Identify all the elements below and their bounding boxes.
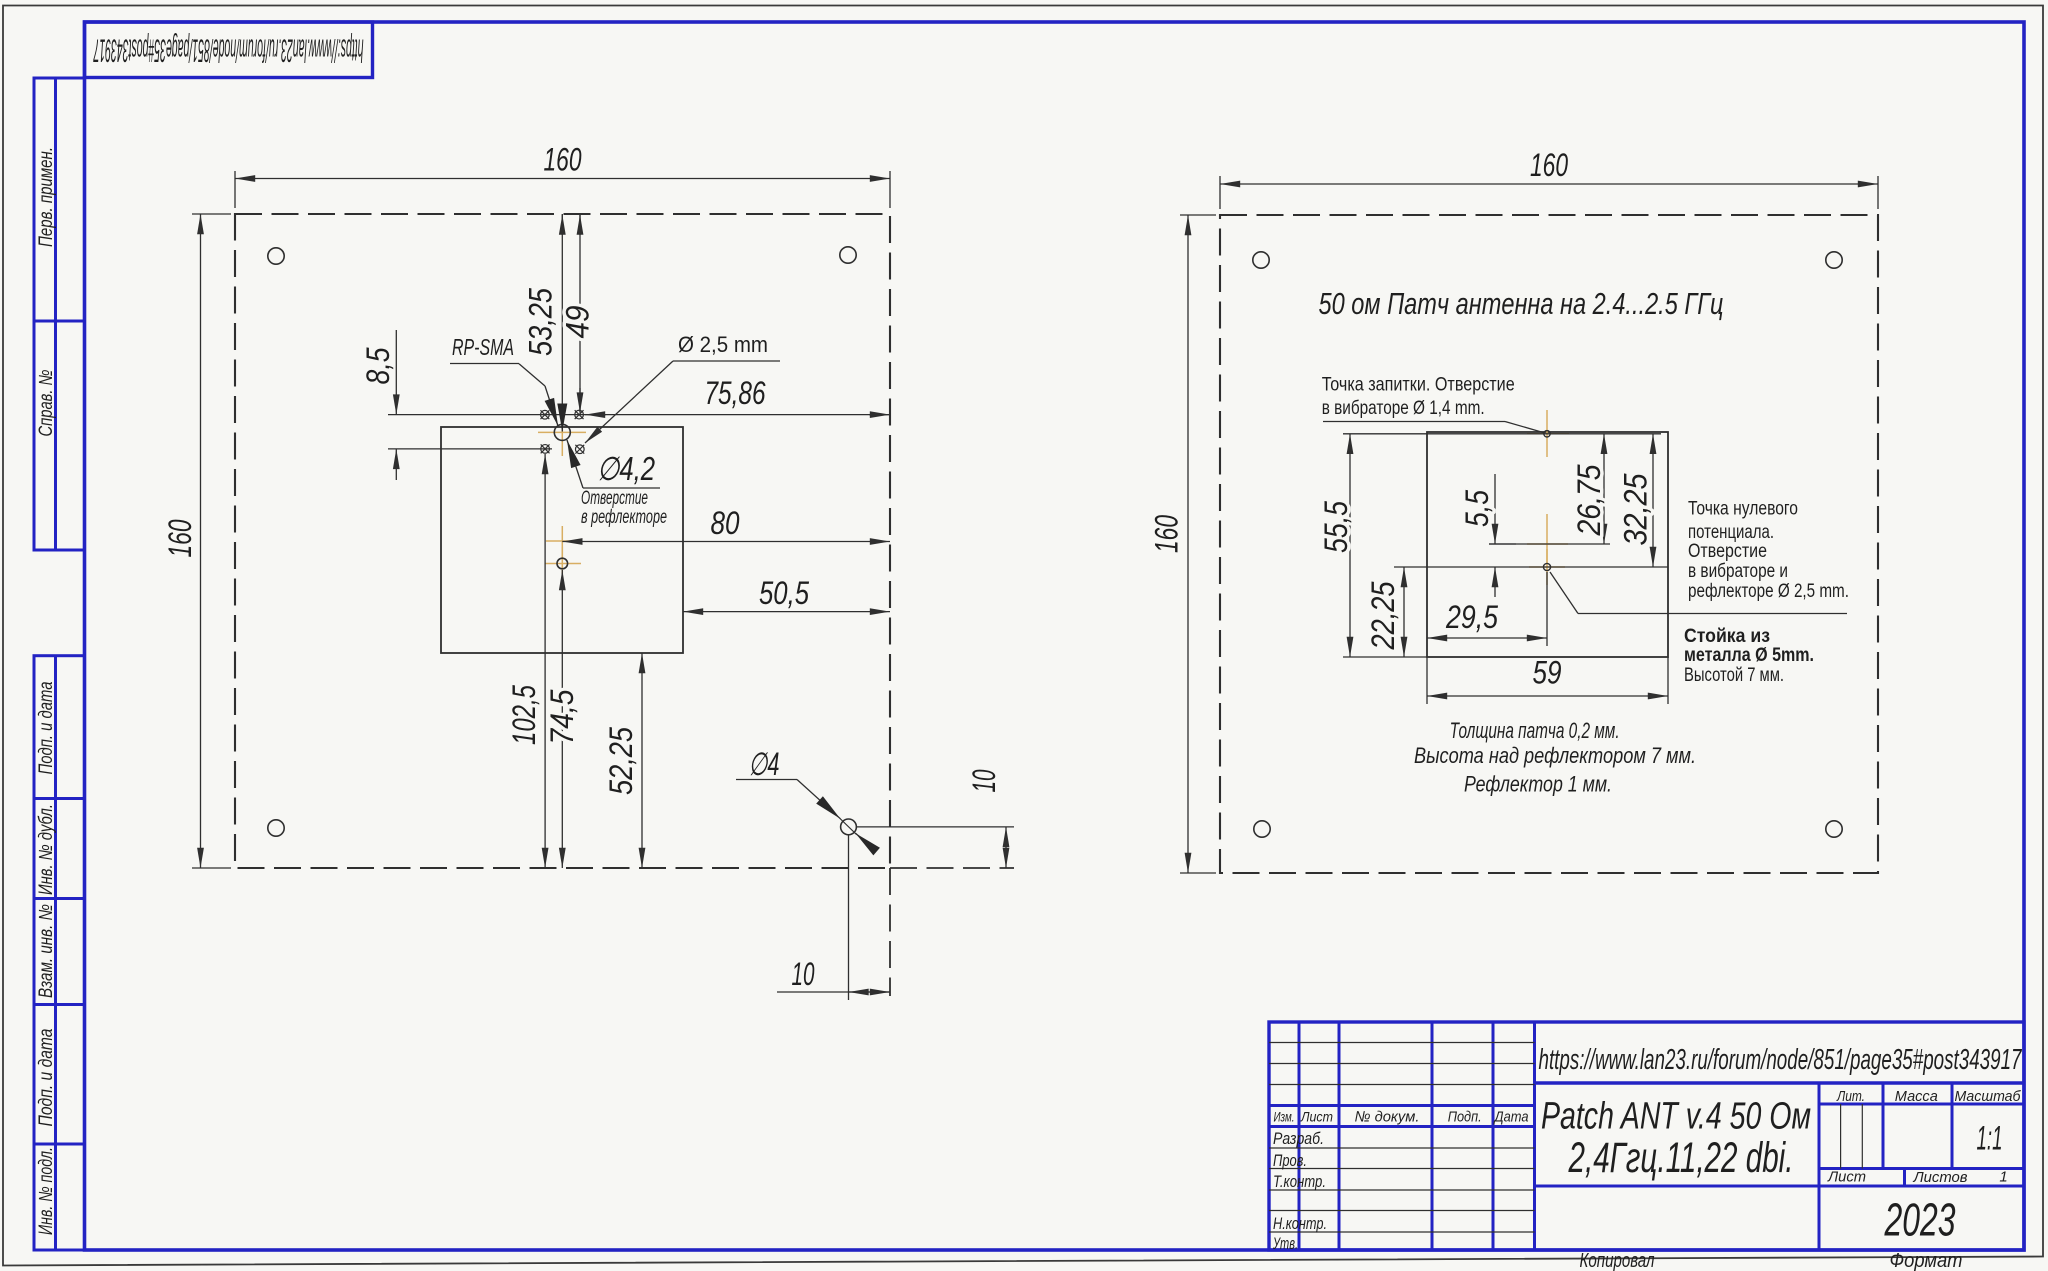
- dim 80: [562, 541, 890, 543]
- patch bottom extension left (right view): [1343, 656, 1427, 658]
- svg-text:Т.контр.: Т.контр.: [1273, 1172, 1326, 1191]
- svg-text:55,5: 55,5: [1318, 501, 1354, 553]
- svg-text:Дата: Дата: [1493, 1109, 1529, 1126]
- svg-text:Отверстие: Отверстие: [581, 488, 648, 509]
- right columns: [1818, 1083, 1821, 1250]
- dim 160 left: line: [200, 214, 202, 868]
- mounting hole bottom-right Ø4: [841, 819, 857, 835]
- svg-text:Масса: Масса: [1895, 1088, 1938, 1105]
- svg-text:Разраб.: Разраб.: [1273, 1129, 1324, 1148]
- left margin boxes lower: [34, 656, 85, 1250]
- dim 102,5: [544, 454, 546, 868]
- svg-text:75,86: 75,86: [705, 375, 766, 411]
- construction line patch centre (right): [1489, 543, 1610, 545]
- svg-text:52,25: 52,25: [603, 727, 639, 795]
- svg-text:2,4Ггц.11,22 dbi.: 2,4Ггц.11,22 dbi.: [1568, 1134, 1794, 1182]
- svg-text:Перв. примен.: Перв. примен.: [36, 147, 57, 247]
- svg-text:50,5: 50,5: [759, 575, 809, 611]
- plate outline dashed 160x160 (right): [1220, 215, 1878, 873]
- svg-text:металла Ø 5mm.: металла Ø 5mm.: [1684, 645, 1814, 666]
- zero potential hole 2.5mm (right): [1543, 563, 1550, 570]
- svg-text:5,5: 5,5: [1459, 490, 1495, 527]
- svg-text:Толщина патча 0,2 мм.: Толщина патча 0,2 мм.: [1450, 718, 1620, 743]
- svg-text:потенциала.: потенциала.: [1688, 522, 1774, 543]
- svg-text:Формат: Формат: [1890, 1250, 1963, 1271]
- header row lines blue: [1269, 1104, 1535, 1107]
- svg-text:Лит.: Лит.: [1836, 1088, 1865, 1105]
- svg-text:RP-SMA: RP-SMA: [452, 334, 514, 360]
- svg-text:102,5: 102,5: [506, 685, 542, 745]
- svg-text:Изм.: Изм.: [1274, 1109, 1295, 1125]
- svg-text:Копировал: Копировал: [1580, 1250, 1655, 1271]
- svg-text:160: 160: [1530, 147, 1568, 183]
- svg-text:Подп. и дата: Подп. и дата: [36, 682, 57, 775]
- dim 74,5: [561, 570, 563, 868]
- svg-text:Стойка из: Стойка из: [1684, 626, 1770, 647]
- URL box top-left: [85, 22, 373, 78]
- svg-text:Лист: Лист: [1300, 1109, 1333, 1125]
- svg-text:1: 1: [1999, 1169, 2007, 1186]
- left margin boxes upper: [34, 78, 85, 550]
- dim 160 top (right): [1219, 176, 1221, 209]
- svg-text:8,5: 8,5: [360, 347, 396, 384]
- centrelines (right): feed: [1527, 410, 1569, 457]
- svg-text:74,5: 74,5: [544, 689, 580, 744]
- svg-text:∅4: ∅4: [749, 746, 780, 782]
- svg-text:2023: 2023: [1884, 1194, 1956, 1246]
- centrelines (right): patch centre: [1527, 514, 1568, 564]
- dim 8,5 line+arrows: [395, 330, 397, 415]
- svg-text:https://www.lan23.ru/forum/nod: https://www.lan23.ru/forum/node/851/page…: [93, 33, 363, 69]
- svg-text:в рефлекторе: в рефлекторе: [581, 507, 667, 528]
- svg-text:Patch ANT v.4 50 Ом: Patch ANT v.4 50 Ом: [1541, 1096, 1811, 1138]
- RP-SMA feed circle: [554, 424, 570, 440]
- svg-text:32,25: 32,25: [1618, 473, 1654, 545]
- mounting hole top-left: [268, 248, 284, 264]
- dim 53,25 line: [561, 214, 563, 429]
- svg-text:Ø 2,5 mm: Ø 2,5 mm: [678, 332, 768, 357]
- mounting hole bottom-left: [268, 820, 284, 836]
- dim 5,5: [1489, 543, 1516, 545]
- svg-text:Лист: Лист: [1827, 1169, 1866, 1186]
- dim 22,25: [1403, 567, 1405, 657]
- line through upper feed holes / dim 75,86: [388, 414, 890, 416]
- svg-text:Утв.: Утв.: [1272, 1234, 1298, 1253]
- mounting holes (right view): [1253, 252, 1269, 268]
- svg-text:в вибраторе и: в вибраторе и: [1688, 561, 1788, 582]
- svg-text:160: 160: [544, 142, 582, 178]
- dim 32,25: [1652, 434, 1654, 567]
- svg-text:26,75: 26,75: [1571, 464, 1607, 536]
- svg-text:Высота над рефлектором 7 мм.: Высота над рефлектором 7 мм.: [1414, 743, 1696, 768]
- svg-text:1:1: 1:1: [1977, 1120, 2003, 1158]
- dim 160 left: extension lines: [192, 213, 231, 215]
- svg-text:160: 160: [162, 519, 198, 557]
- svg-text:Рефлектор 1 мм.: Рефлектор 1 мм.: [1464, 772, 1612, 797]
- dim 160 top: extension lines: [234, 171, 236, 208]
- dashed extension right edge below plate: [889, 868, 891, 996]
- svg-text:160: 160: [1149, 515, 1185, 553]
- construction line through zero point (right): [1394, 566, 1668, 568]
- dim 10 bottom: extension: [848, 835, 850, 1000]
- vibrator patch square (right): [1427, 432, 1668, 657]
- svg-text:№ докум.: № докум.: [1355, 1109, 1420, 1126]
- svg-text:22,25: 22,25: [1365, 581, 1401, 650]
- svg-text:рефлекторе Ø 2,5 mm.: рефлекторе Ø 2,5 mm.: [1688, 581, 1849, 602]
- svg-text:Н.контр.: Н.контр.: [1273, 1214, 1327, 1233]
- dim 26,75: [1603, 434, 1605, 544]
- dim 55,5: [1349, 434, 1351, 657]
- dim 160 left (right): [1180, 214, 1216, 216]
- svg-text:80: 80: [711, 505, 740, 541]
- dim 10 right: line: [1005, 827, 1007, 868]
- svg-text:Масштаб: Масштаб: [1955, 1088, 2022, 1105]
- centerline cross at patch centre: [546, 526, 578, 557]
- feed hole 1.4mm (right): [1544, 431, 1550, 437]
- svg-text:Взам. инв. №: Взам. инв. №: [36, 904, 57, 998]
- dim 59: [1426, 657, 1428, 704]
- centrelines (right): zero point: [1529, 549, 1565, 585]
- title block outer: [1269, 1022, 2024, 1250]
- centerline cross at zero point: [545, 547, 581, 581]
- dim 52,25: [641, 653, 643, 868]
- svg-text:Справ. №: Справ. №: [36, 370, 57, 437]
- construction line through feed (right): [1343, 433, 1661, 435]
- svg-text:https://www.lan23.ru/forum/nod: https://www.lan23.ru/forum/node/851/page…: [1539, 1044, 2023, 1076]
- dim 29,5: [1546, 572, 1548, 646]
- plate outline dashed 160x160: [235, 214, 890, 868]
- dashed extension bottom edge right of plate: [890, 867, 1014, 869]
- svg-text:49: 49: [560, 305, 596, 338]
- svg-text:10: 10: [792, 956, 815, 992]
- dim 49 line: [579, 214, 581, 413]
- zero potential hole: [557, 558, 568, 569]
- dim 160 top: line: [235, 178, 890, 180]
- svg-text:Инв. № подл.: Инв. № подл.: [36, 1147, 57, 1235]
- svg-text:Листов: Листов: [1913, 1169, 1968, 1186]
- dim 50,5: [683, 611, 890, 613]
- svg-text:29,5: 29,5: [1445, 599, 1498, 635]
- signature rows thin: [1269, 1147, 1535, 1149]
- feed holes 2.5mm (4x): [540, 410, 549, 419]
- URL box bottom line: [1535, 1081, 2025, 1084]
- title cell divider: [1535, 1185, 1820, 1188]
- svg-text:50 ом Патч антенна на 2.4...2.: 50 ом Патч антенна на 2.4...2.5 ГГц: [1319, 286, 1724, 321]
- svg-text:Точка нулевого: Точка нулевого: [1688, 499, 1798, 520]
- svg-text:53,25: 53,25: [523, 288, 559, 356]
- title block verticals left part: [1298, 1022, 1301, 1250]
- svg-text:10: 10: [966, 769, 1002, 792]
- Лит subcells: [1840, 1104, 1842, 1169]
- svg-text:Подп. и дата: Подп. и дата: [36, 1029, 57, 1127]
- svg-text:59: 59: [1533, 655, 1562, 691]
- svg-text:Инв. № дубл.: Инв. № дубл.: [36, 804, 57, 895]
- svg-text:в вибраторе Ø 1,4 mm.: в вибраторе Ø 1,4 mm.: [1322, 398, 1485, 419]
- svg-text:Подп.: Подп.: [1448, 1109, 1482, 1126]
- svg-text:Пров.: Пров.: [1273, 1151, 1307, 1170]
- svg-text:Отверстие: Отверстие: [1688, 541, 1767, 562]
- dim 10 right: extension: [857, 826, 1014, 828]
- revision rows thin: [1269, 1042, 1535, 1044]
- svg-text:Высотой 7 мм.: Высотой 7 мм.: [1684, 665, 1784, 686]
- mounting hole top-right: [840, 247, 856, 263]
- line through lower-left feed hole: [388, 448, 552, 450]
- dim 10 bottom: line: [777, 991, 890, 993]
- patch square: [441, 427, 683, 653]
- svg-text:∅4,2: ∅4,2: [597, 450, 655, 487]
- leader zero point (right): [1550, 572, 1578, 614]
- svg-text:Точка запитки. Отверстие: Точка запитки. Отверстие: [1322, 374, 1515, 395]
- centerline cross at feed: [538, 415, 586, 456]
